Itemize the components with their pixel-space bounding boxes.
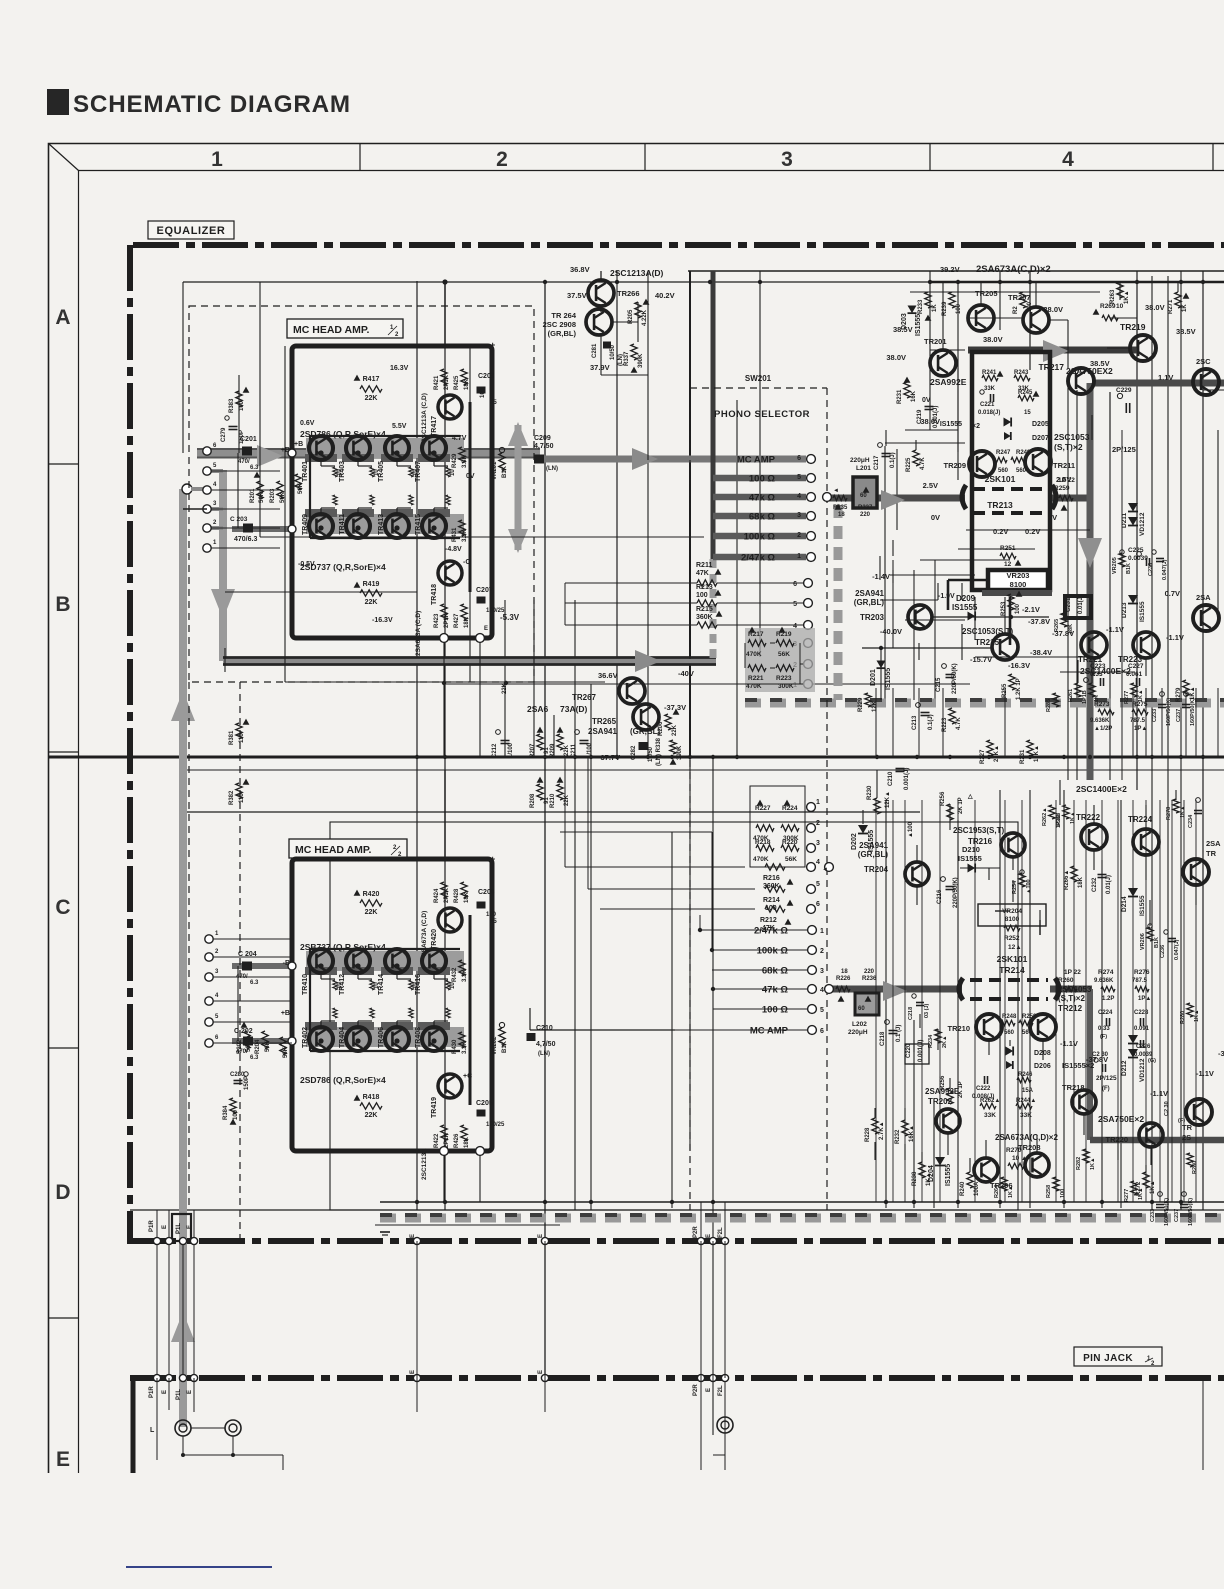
- wire top feed: [444, 282, 446, 346]
- capacitor C229 2P/125: [1125, 403, 1127, 413]
- bus band dark squares lower: [380, 1213, 1224, 1217]
- svg-text:TR220: TR220: [1105, 1135, 1128, 1144]
- svg-text:C224: C224: [1098, 1010, 1113, 1016]
- resistor R212 47K: [765, 906, 785, 912]
- svg-text:C237: C237: [1174, 1209, 1180, 1222]
- wire: [1012, 857, 1014, 870]
- svg-text:-1.1V: -1.1V: [1106, 625, 1124, 634]
- svg-text:TR416: TR416: [415, 974, 422, 995]
- wire: [211, 489, 280, 491]
- svg-text:R262▲: R262▲: [1042, 807, 1048, 826]
- svg-text:12▲: 12▲: [1008, 944, 1022, 951]
- resistor R216 360K: [765, 864, 785, 870]
- svg-text:R243: R243: [1014, 370, 1029, 376]
- resistor R272 1K: [1143, 1172, 1149, 1188]
- svg-text:18K: 18K: [464, 378, 470, 390]
- bus: top right horizontal: [968, 347, 1137, 354]
- transistor TR222: [1081, 824, 1107, 850]
- wire: [974, 800, 976, 1202]
- svg-text:6: 6: [820, 1028, 824, 1035]
- wire: [904, 800, 906, 1202]
- svg-text:R250: R250: [1022, 1014, 1037, 1020]
- junction: [415, 1200, 419, 1204]
- resistor R233 1K: [925, 292, 931, 308]
- svg-text:R209: R209: [550, 743, 556, 758]
- terminal 2: [205, 953, 213, 961]
- transistor TR403: [346, 436, 370, 460]
- junction: [956, 1200, 960, 1204]
- svg-text:40.2V: 40.2V: [655, 291, 675, 300]
- resistor R227m 27K: [987, 740, 993, 756]
- resistor R263 1K2: [1117, 282, 1123, 298]
- svg-text:D210: D210: [962, 845, 980, 854]
- capacitor C213 0.1J: [921, 712, 930, 714]
- wire: [700, 1202, 702, 1435]
- junction: [1179, 1200, 1183, 1204]
- wire: [1101, 800, 1103, 1202]
- svg-text:0V: 0V: [922, 397, 931, 404]
- wire: [1145, 855, 1147, 880]
- resistor R244 33K: [1016, 1103, 1032, 1109]
- wire: [1177, 282, 1179, 292]
- svg-text:220μH: 220μH: [848, 1029, 868, 1036]
- resistor R422: [441, 1125, 447, 1141]
- wire: [1012, 880, 1014, 902]
- svg-text:TR401: TR401: [302, 461, 309, 482]
- svg-text:VR202: VR202: [492, 1036, 498, 1055]
- svg-text:22K: 22K: [365, 599, 378, 606]
- svg-text:(GR,BL): (GR,BL): [630, 727, 661, 736]
- svg-text:C210: C210: [536, 1025, 553, 1032]
- svg-text:(F): (F): [1100, 1034, 1107, 1040]
- junction: [573, 755, 577, 759]
- svg-text:0.01(J): 0.01(J): [1106, 875, 1112, 894]
- svg-text:IS1555: IS1555: [940, 421, 962, 428]
- resistor R277 1K top: [1131, 683, 1137, 697]
- capacitor C210m: [896, 768, 905, 770]
- wire: [759, 271, 761, 657]
- bus segment: [305, 967, 337, 975]
- wire from C203 row: [183, 508, 207, 510]
- wire: [966, 529, 1090, 531]
- bus: upper MC input (grey): [197, 449, 540, 458]
- capacitor C228 0.091: [1140, 1018, 1142, 1026]
- junction: [355, 1038, 360, 1043]
- MC HEAD AMP 1/2 dashed enclosure: [189, 306, 534, 682]
- svg-text:C210: C210: [888, 771, 894, 786]
- svg-text:2SC1213A (C,D): 2SC1213A (C,D): [421, 393, 428, 442]
- bus arrow up: [171, 691, 195, 721]
- svg-text:1P▲: 1P▲: [1134, 726, 1147, 732]
- svg-text:R247: R247: [996, 450, 1011, 456]
- junction: [1201, 280, 1205, 284]
- svg-text:TR218: TR218: [1062, 1083, 1085, 1092]
- wire: [1217, 430, 1219, 620]
- resistor R235 18: [833, 495, 847, 500]
- MC HEAD AMP block 2 thick box: [292, 859, 492, 1151]
- junction: [431, 525, 436, 530]
- resistor R241 100: [1020, 292, 1026, 308]
- wire: [875, 800, 877, 1202]
- svg-text:2.7K▲: 2.7K▲: [879, 1121, 885, 1140]
- svg-text:4: 4: [797, 493, 801, 500]
- wire: [1171, 800, 1173, 1202]
- equalizer dash-dot border top: [133, 242, 1224, 248]
- svg-text:160P/50(K): 160P/50(K): [1164, 1198, 1170, 1226]
- svg-text:TR418: TR418: [431, 584, 438, 605]
- resistor R384 100: [230, 1098, 236, 1114]
- resistor R419 22K: [360, 590, 382, 596]
- junction: [442, 343, 447, 348]
- wire: [1077, 660, 1079, 683]
- svg-text:8100: 8100: [1005, 916, 1020, 923]
- svg-text:P1R: P1R: [149, 1386, 155, 1398]
- wire: [896, 449, 898, 530]
- svg-text:60: 60: [860, 493, 867, 499]
- svg-text:4,7/50: 4,7/50: [534, 443, 554, 450]
- svg-text:(G): (G): [1148, 1058, 1156, 1064]
- transistor right edge lower2: [1186, 1099, 1212, 1125]
- emitter resistor 10: [446, 495, 450, 505]
- resistor R276: [1135, 986, 1149, 991]
- svg-text:787.5: 787.5: [1130, 718, 1146, 724]
- wire: [193, 1210, 195, 1378]
- svg-text:160P/50(K): 160P/50(K): [1188, 1198, 1194, 1226]
- svg-text:75: 75: [490, 919, 497, 925]
- svg-text:P2R: P2R: [693, 1384, 699, 1396]
- selector wiper contact: [823, 493, 832, 502]
- selector contact 6 (MC AMP): [808, 1026, 817, 1035]
- svg-text:R246: R246: [1018, 1072, 1033, 1078]
- svg-text:2SB737 (Q,R,SorE)×4: 2SB737 (Q,R,SorE)×4: [300, 942, 386, 952]
- svg-text:C220: C220: [906, 1043, 912, 1058]
- wire C204-C202 vertical: [237, 966, 239, 1041]
- wire: [310, 435, 460, 437]
- resistor R215 360K: [697, 622, 717, 628]
- selector contact 3: [807, 844, 816, 853]
- wire: [444, 683, 970, 685]
- svg-text:2S: 2S: [1182, 1133, 1191, 1142]
- resistor R338 390K: [670, 740, 676, 754]
- svg-text:18K: 18K: [464, 1136, 470, 1148]
- wire: [183, 769, 1224, 771]
- svg-text:1P1B: 1P1B: [1082, 690, 1088, 704]
- wire: [980, 282, 982, 305]
- resistor R221 470K: [748, 665, 766, 671]
- bus stubs to contacts: [211, 469, 223, 473]
- svg-text:1.2P: 1.2P: [1102, 996, 1114, 1002]
- svg-text:R238: R238: [912, 1171, 918, 1186]
- diode D202 IS1555: [858, 825, 868, 834]
- capacitor C221 0.018J: [990, 394, 992, 402]
- bus junction ring: [182, 484, 192, 494]
- wire: [919, 1014, 921, 1028]
- svg-text:1: 1: [820, 928, 824, 935]
- svg-text:R277: R277: [1124, 1189, 1130, 1202]
- selector contact 3 (68k Ω): [808, 966, 817, 975]
- transistor TR209: [969, 451, 995, 477]
- svg-text:TR: TR: [1206, 849, 1217, 858]
- wires below to jacks: [156, 1378, 158, 1460]
- bus arrow: [883, 981, 907, 1001]
- svg-text:0.33: 0.33: [1098, 1026, 1110, 1032]
- svg-text:R235: R235: [833, 505, 848, 511]
- capacitor C282 10/50: [639, 742, 648, 750]
- svg-text:3.3K: 3.3K: [462, 1041, 468, 1054]
- svg-text:15A: 15A: [1022, 1088, 1034, 1094]
- svg-text:-37.8V: -37.8V: [1028, 617, 1050, 626]
- svg-text:0.047(J): 0.047(J): [1174, 939, 1180, 960]
- svg-text:2SD786 (Q,R,SorE)×4: 2SD786 (Q,R,SorE)×4: [300, 1075, 386, 1085]
- resistor R264 1K: [1001, 1177, 1007, 1191]
- resistor R279 1K: [1183, 680, 1189, 696]
- bus: left tall vertical (grey): [179, 489, 187, 1427]
- svg-text:56K: 56K: [778, 651, 790, 658]
- transistor TR402: [309, 1027, 333, 1051]
- svg-text:(GR,BL): (GR,BL): [854, 598, 885, 607]
- svg-text:(S,T)×2: (S,T)×2: [1054, 442, 1083, 452]
- wire: [1145, 658, 1147, 676]
- svg-text:2SA673A (C,D): 2SA673A (C,D): [421, 911, 428, 956]
- svg-text:9.636K: 9.636K: [1090, 718, 1110, 724]
- wire: [1136, 310, 1138, 348]
- wire: [890, 574, 975, 576]
- capacitor C236 0.047J: [1168, 938, 1176, 940]
- svg-text:+: +: [490, 340, 495, 350]
- svg-text:A: A: [55, 306, 70, 329]
- capacitor C226 0.0039: [1140, 1040, 1142, 1048]
- svg-text:R263: R263: [1110, 289, 1116, 304]
- capacitor C225 0.0039: [1146, 558, 1148, 566]
- svg-text:R425: R425: [454, 375, 460, 390]
- selector contact 2 (100k Ω): [808, 946, 817, 955]
- wire: [688, 270, 1224, 272]
- capacitor C237: [1182, 1192, 1187, 1197]
- svg-text:D201: D201: [870, 669, 877, 686]
- svg-text:P2R: P2R: [693, 1226, 699, 1238]
- svg-text:68k Ω: 68k Ω: [762, 966, 788, 977]
- svg-text:12K: 12K: [872, 700, 878, 712]
- equalizer dash-dot border left: [127, 245, 133, 1244]
- svg-text:160P/50(K): 160P/50(K): [1190, 698, 1196, 726]
- terminal 3: [205, 973, 213, 981]
- diode D214 IS1555: [1128, 888, 1138, 897]
- emitter resistor 10: [370, 467, 374, 477]
- resistor R259 1P22: [1059, 495, 1073, 500]
- svg-text:56K: 56K: [265, 1040, 271, 1052]
- resistor R426: [461, 1125, 467, 1141]
- terminals on bottom edge of box: [440, 634, 449, 643]
- svg-text:1K▲: 1K▲: [926, 1172, 932, 1186]
- svg-text:100: 100: [1060, 1189, 1066, 1198]
- capacitor C206: [477, 387, 486, 394]
- capacitor C235/VR205 cluster: [1119, 553, 1125, 567]
- wire: [885, 800, 887, 1208]
- resistor R213 100: [697, 600, 717, 606]
- wires from box bottom: [443, 642, 445, 757]
- resistor R423: [441, 604, 447, 620]
- thin rect wire loop upper left: [259, 282, 261, 537]
- wire: [1109, 392, 1111, 440]
- wire C201-C203 vertical: [237, 453, 239, 528]
- bus: lower channel wiper feed: [829, 986, 962, 993]
- svg-text:-1.1V: -1.1V: [1166, 633, 1184, 642]
- svg-text:R421: R421: [434, 375, 440, 390]
- VR203 thick leads: [948, 579, 988, 582]
- wire: [469, 346, 471, 682]
- junction: [394, 525, 399, 530]
- transistor TR203: [908, 605, 932, 629]
- wire: [700, 1241, 702, 1378]
- wire: [942, 282, 944, 350]
- resistor R229 12K: [865, 693, 871, 707]
- wire: [1049, 319, 1068, 321]
- SW201 dashed box: [690, 387, 827, 389]
- svg-text:TR405: TR405: [378, 461, 385, 482]
- wire: [892, 560, 894, 648]
- resistor R220 56K: [781, 845, 799, 851]
- svg-text:R211: R211: [696, 562, 712, 569]
- wire: [885, 430, 887, 446]
- svg-text:5: 5: [820, 1007, 824, 1014]
- wire: [916, 845, 918, 862]
- junction: [735, 755, 739, 759]
- transistor TR207: [1023, 307, 1049, 333]
- resistor R223m 4.7K: [949, 708, 955, 724]
- wire: [947, 1133, 949, 1155]
- svg-text:10/50: 10/50: [610, 344, 616, 360]
- svg-text:4: 4: [820, 987, 824, 994]
- junction: [318, 525, 323, 530]
- svg-text:B1K: B1K: [502, 1040, 508, 1053]
- svg-text:33K: 33K: [984, 1112, 996, 1119]
- svg-text:22K: 22K: [672, 724, 678, 736]
- transistor right edge upper: [1193, 369, 1219, 395]
- svg-text:4.7K: 4.7K: [920, 457, 926, 470]
- junction: [670, 755, 674, 759]
- terminal 5: [203, 467, 211, 475]
- junction: [1135, 280, 1139, 284]
- svg-text:-40.0V: -40.0V: [880, 627, 902, 636]
- svg-text:470/: 470/: [238, 459, 250, 465]
- svg-text:VD1212: VD1212: [1139, 512, 1146, 536]
- wire: [1195, 688, 1197, 757]
- svg-text:◄: ◄: [822, 867, 828, 873]
- capacitor C219 0.001J: [925, 406, 934, 408]
- svg-text:R259: R259: [1054, 485, 1070, 492]
- svg-text:10 ▲: 10 ▲: [1012, 1155, 1027, 1162]
- resistor R424: [441, 882, 447, 898]
- wire: [1042, 1040, 1044, 1060]
- svg-text:R228: R228: [865, 1127, 871, 1142]
- svg-text:R241: R241: [982, 370, 997, 376]
- svg-text:2: 2: [797, 532, 801, 539]
- wire: [193, 1245, 195, 1375]
- bus segment: [381, 967, 413, 975]
- svg-text:R2: R2: [1013, 306, 1019, 314]
- inductor L202 220uH: [855, 993, 879, 1015]
- svg-text:6: 6: [793, 581, 797, 588]
- wire: [939, 800, 941, 1202]
- svg-text:1K▲: 1K▲: [1180, 806, 1186, 818]
- terminal 1: [205, 935, 213, 943]
- svg-text:220P/50(K): 220P/50(K): [952, 663, 958, 694]
- svg-text:R225: R225: [906, 457, 912, 472]
- svg-text:39.2V: 39.2V: [940, 265, 960, 274]
- junction: [912, 1200, 916, 1204]
- svg-text:4,7/50: 4,7/50: [536, 1041, 556, 1048]
- wire: [957, 800, 959, 1202]
- svg-text:1: 1: [797, 553, 801, 560]
- svg-text:-0.5V: -0.5V: [298, 561, 315, 568]
- wire: [1145, 688, 1147, 757]
- svg-text:C231: C231: [1066, 597, 1072, 612]
- transistor TR218: [1072, 1090, 1096, 1114]
- capacitor C209 4.7/50: [534, 455, 544, 464]
- svg-text:C 202: C 202: [234, 1028, 253, 1035]
- junction: [415, 755, 419, 759]
- svg-text:12: 12: [1004, 561, 1012, 568]
- svg-text:470/6.3: 470/6.3: [234, 536, 257, 543]
- svg-text:P1L: P1L: [176, 1389, 182, 1400]
- svg-text:TR217: TR217: [1038, 362, 1064, 372]
- wire: [1073, 800, 1075, 1202]
- svg-text:100/25: 100/25: [486, 1122, 505, 1128]
- diodes D208 D206: [1006, 1047, 1014, 1056]
- wire: [1091, 660, 1093, 683]
- resistor R236b 1K: [1187, 1153, 1193, 1167]
- svg-text:-4.8​V: -4.8​V: [445, 546, 462, 553]
- bus: grey dashed band lower: [380, 1214, 1224, 1223]
- svg-text:R256: R256: [940, 1075, 946, 1090]
- svg-text:37.5V: 37.5V: [567, 291, 587, 300]
- emitter resistor 10: [409, 980, 413, 990]
- resistor R206m 22K: [665, 714, 671, 730]
- wire: [874, 1108, 876, 1118]
- wire: [1119, 282, 1121, 300]
- capacitor C215 220P/50: [946, 674, 955, 676]
- svg-text:C238: C238: [1148, 563, 1154, 576]
- wire: [905, 619, 965, 621]
- resistors R247 R249 560: [993, 457, 1007, 462]
- wire: [920, 559, 1010, 561]
- wire: [416, 281, 418, 1210]
- svg-text:150P: 150P: [244, 1076, 250, 1090]
- svg-text:C212: C212: [492, 743, 498, 758]
- resistors R282 R288 lower: [1083, 1149, 1089, 1163]
- svg-text:R212: R212: [760, 917, 777, 924]
- svg-text:MC HEAD AMP.: MC HEAD AMP.: [293, 324, 370, 336]
- capacitor C220 0.001J: [905, 1044, 929, 1064]
- wire: [1036, 1135, 1038, 1153]
- pin jack border left corner: [131, 1378, 136, 1473]
- wire: [918, 643, 920, 660]
- svg-text:L202: L202: [852, 1021, 867, 1028]
- selector contact 2 (100k Ω): [807, 532, 816, 541]
- pin jack L left: [175, 1420, 191, 1436]
- wire: [1035, 282, 1037, 307]
- selector contact 5 (100 Ω): [808, 1005, 817, 1014]
- white node circles on box: [288, 449, 296, 457]
- resistor R253 100: [1008, 594, 1014, 610]
- svg-text:-5.3V: -5.3V: [500, 613, 520, 622]
- wire: [1159, 800, 1161, 1202]
- wire loop below MC1: [224, 648, 226, 672]
- resistor R210 22K: [557, 784, 563, 800]
- wire: [937, 583, 939, 600]
- svg-text:C2 30: C2 30: [1164, 1101, 1170, 1116]
- transistor TR264 2SC2908: [586, 309, 612, 335]
